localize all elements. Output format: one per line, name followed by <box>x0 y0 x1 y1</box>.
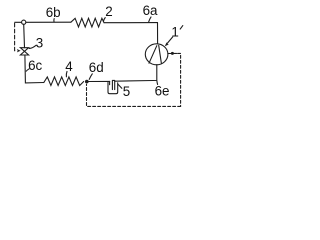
leader tick for 6d <box>89 74 92 80</box>
resistor R2 zigzag <box>71 18 104 27</box>
resistor R4 zigzag <box>44 77 84 86</box>
arrowhead of leader 1 <box>165 42 169 46</box>
leader tick for 6a <box>149 17 151 22</box>
valve 3 (hourglass) <box>20 48 28 55</box>
leader for 3 <box>29 45 36 48</box>
junction dot on compressor right <box>171 52 174 55</box>
leader for 5 <box>118 84 122 88</box>
svg-text:6b: 6b <box>46 5 61 20</box>
wire from compressor bottom to corner <box>153 65 157 81</box>
dashed control line right vertical <box>178 53 181 106</box>
svg-text:3: 3 <box>36 36 43 51</box>
node 6b (open circle) <box>22 20 26 24</box>
wire top-right to corner <box>104 22 157 24</box>
svg-text:5: 5 <box>123 84 130 99</box>
svg-text:6d: 6d <box>89 60 104 75</box>
dashed control line from compressor right <box>168 52 177 54</box>
dashed equalizer line down-left <box>15 23 17 50</box>
dashed control line bottom <box>87 84 181 106</box>
wire from node down to valve <box>23 24 26 47</box>
leader tick for 2 <box>103 18 105 22</box>
compressor internal vanes <box>149 45 161 63</box>
wire top from node to resistor 2 <box>26 21 71 23</box>
wire top-left from node to equalizer corner <box>15 21 22 23</box>
arrowhead into valve <box>17 49 21 52</box>
compressor 1 circle <box>145 44 168 65</box>
accumulator inlet hook <box>109 81 111 84</box>
svg-text:6c: 6c <box>28 58 42 73</box>
wire bottom-right segment to accumulator <box>115 80 153 83</box>
wire from node 6d to accumulator <box>89 80 110 82</box>
svg-text:6a: 6a <box>143 3 158 18</box>
leader tick for 6e <box>156 81 159 85</box>
node 6d (filled dot) <box>85 80 89 84</box>
leader tick for 6c <box>26 69 29 71</box>
svg-text:2: 2 <box>105 4 112 19</box>
accumulator 5 vessel <box>108 82 118 93</box>
leader tick for 6b <box>53 19 55 22</box>
accumulator 5 dip tube <box>112 80 114 89</box>
leader tick for 4 <box>65 72 68 77</box>
wire right vertical down to compressor <box>157 23 159 44</box>
svg-text:6e: 6e <box>155 83 170 98</box>
wire bottom-left corner <box>25 55 44 83</box>
leader from 1 to compressor <box>167 37 173 44</box>
prime mark <box>180 26 183 30</box>
